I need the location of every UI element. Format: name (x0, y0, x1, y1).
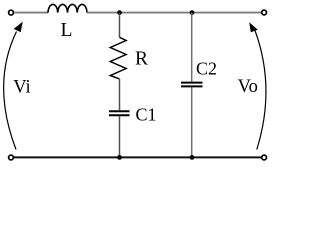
svg-text:C1: C1 (136, 105, 157, 125)
inductor L (48, 4, 87, 12)
terminal bottom-left (9, 155, 14, 160)
resistor R (110, 37, 126, 79)
capacitor C1 bottom plate (109, 114, 130, 116)
wire top-left segment (14, 12, 48, 14)
node C (bottom of C1 branch) (117, 155, 122, 160)
Vi arrow shaft (4, 32, 17, 150)
svg-text:R: R (135, 48, 148, 69)
svg-text:Vo: Vo (238, 77, 258, 97)
capacitor C2 bottom plate (181, 85, 203, 87)
wire C1 to bottom (119, 116, 121, 157)
Vi arrow head (14, 22, 23, 32)
capacitor C2 top plate (181, 82, 203, 84)
capacitor C1 top plate (109, 110, 130, 112)
wire node A to resistor (119, 13, 121, 38)
Vo arrow shaft (255, 31, 266, 150)
wire top middle segment (87, 12, 192, 14)
node B (top of C2 branch) (190, 10, 195, 15)
svg-text:C2: C2 (196, 58, 217, 78)
terminal top-left (9, 10, 14, 15)
wire top right segment (192, 12, 262, 14)
node A (top of R branch) (117, 10, 122, 15)
wire node B to C2 (191, 13, 193, 82)
node D (bottom of C2 branch) (190, 155, 195, 160)
svg-text:L: L (61, 20, 73, 41)
Vo arrow head (249, 22, 258, 32)
bottom wire (14, 156, 262, 158)
svg-text:Vi: Vi (13, 77, 30, 97)
wire C2 to bottom (191, 87, 193, 157)
terminal bottom-right (262, 155, 267, 160)
wire resistor to C1 (119, 79, 121, 110)
terminal top-right (262, 10, 267, 15)
